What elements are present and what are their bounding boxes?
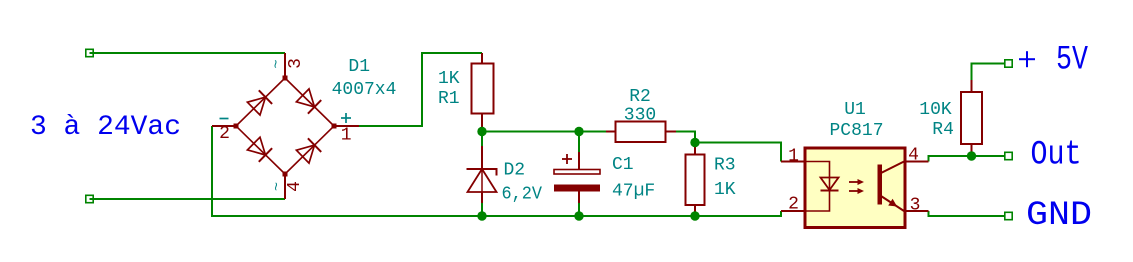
svg-text:3: 3 [286,58,306,69]
C1 plus mark [562,158,572,160]
U1 LED [821,178,839,191]
pin name + (right) [341,117,351,119]
terminal +5V [1005,60,1012,67]
svg-text:1: 1 [788,147,799,167]
svg-text:47µF: 47µF [612,182,655,202]
wire [482,131,606,133]
wire [695,143,781,162]
svg-text:R3: R3 [714,156,736,176]
wire [90,52,286,54]
U1 phototransistor [878,165,883,205]
wire [359,53,482,126]
wire [481,132,483,147]
U1 pin 3 [905,210,929,212]
capacitor C1 [578,152,580,170]
U1 pin 2 [781,210,805,212]
svg-text:3 à 24Vac: 3 à 24Vac [30,112,181,143]
svg-text:1K: 1K [714,180,736,200]
junction node R3 top [690,138,699,147]
D1 pin 1 (right) [334,125,359,127]
svg-text:U1: U1 [844,100,866,120]
wire [676,132,695,143]
zener diode D2 [481,146,483,169]
junction node A [477,127,486,136]
terminal Out [1005,152,1012,159]
svg-text:2: 2 [788,195,799,215]
svg-text:5V: 5V [1056,42,1088,80]
wire [90,198,286,200]
svg-text:6,2V: 6,2V [502,185,543,205]
svg-text:1K: 1K [438,69,460,89]
svg-text:4: 4 [908,146,919,166]
svg-text:D2: D2 [504,161,526,181]
D1 pin 3 (top) [284,53,286,78]
svg-text:GND: GND [1026,197,1092,235]
svg-text:D1: D1 [348,57,370,77]
label + 5V [1019,58,1035,60]
U1 inner wiring [805,162,830,212]
D1 diode bottom-right [296,138,321,163]
svg-text:R4: R4 [932,120,954,140]
D1 diode top-right [296,89,321,114]
svg-text:330: 330 [624,106,656,126]
svg-text:3: 3 [910,196,921,216]
U1 pin 4 [905,161,929,163]
svg-text:~: ~ [269,59,286,68]
svg-text:C1: C1 [612,155,634,175]
wire [929,156,1006,162]
svg-text:4: 4 [285,181,305,192]
svg-text:4007x4: 4007x4 [332,80,397,100]
resistor R1 [481,53,483,64]
U1 light arrows [849,181,860,183]
wire [578,203,580,216]
wire [212,126,781,216]
wire [481,203,483,216]
terminal bottom-left [86,195,93,202]
junction node R3 bottom [690,211,699,220]
svg-text:R1: R1 [438,89,460,109]
resistor R4 [971,80,973,92]
junction node Out [967,151,976,160]
wire [929,211,1006,216]
svg-text:Out: Out [1031,137,1082,175]
svg-text:1: 1 [341,126,352,146]
svg-text:10K: 10K [919,100,952,120]
junction node C1 top [574,127,583,136]
U1 pin 1 [781,161,805,163]
terminal GND [1005,212,1012,219]
resistor R2 [606,131,616,133]
wire [578,132,580,153]
optocoupler U1 [805,148,905,228]
svg-text:~: ~ [269,182,286,191]
svg-text:2: 2 [219,124,230,144]
pin name - (left) [220,118,229,120]
junction node C1 bottom [574,211,583,220]
wire [972,64,1006,81]
resistor R3 [694,143,696,155]
D1 diode bottom-left [247,137,272,162]
D1 pin 2 (left) [212,125,236,127]
svg-text:R2: R2 [629,87,651,107]
junction node D2 bottom [477,211,486,220]
bridge rectifier D1 [236,78,334,174]
svg-text:PC817: PC817 [829,121,883,141]
D1 pin 4 (bottom) [284,174,286,199]
D1 diode top-left [247,90,272,115]
terminal top-left [86,49,93,56]
